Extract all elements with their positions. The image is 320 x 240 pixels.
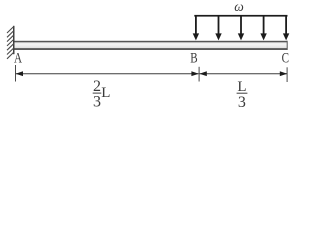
distributed load top line <box>194 15 287 17</box>
svg-text:L: L <box>101 85 110 101</box>
svg-text:A: A <box>14 50 22 66</box>
svg-text:ω: ω <box>234 0 244 14</box>
load arrow 2 <box>215 16 221 41</box>
load arrow 3 <box>238 16 244 41</box>
dimension arrowhead left of B (points right) <box>191 71 198 76</box>
svg-text:3: 3 <box>93 94 101 111</box>
dimension arrowhead at A (points left) <box>16 71 23 76</box>
svg-text:C: C <box>282 51 289 67</box>
dimension arrowhead right of B (points left) <box>199 71 206 76</box>
beam AC <box>15 41 288 50</box>
wall hatching <box>7 27 14 59</box>
extension tick at A <box>15 65 16 82</box>
load arrow 5 <box>283 16 289 41</box>
dimension line B-C <box>199 73 287 75</box>
extension tick at C <box>287 67 288 82</box>
extension tick at B <box>199 67 200 82</box>
dimension label L/3 <box>237 79 248 111</box>
dimension label 2/3 L <box>93 78 111 111</box>
svg-text:3: 3 <box>238 94 246 111</box>
load arrow 1 <box>193 16 199 41</box>
load arrow 4 <box>260 16 266 41</box>
dimension arrowhead at C (points right) <box>280 71 287 76</box>
svg-text:B: B <box>190 50 197 66</box>
dimension line A-B <box>16 73 199 75</box>
fixed support wall line <box>13 26 15 54</box>
